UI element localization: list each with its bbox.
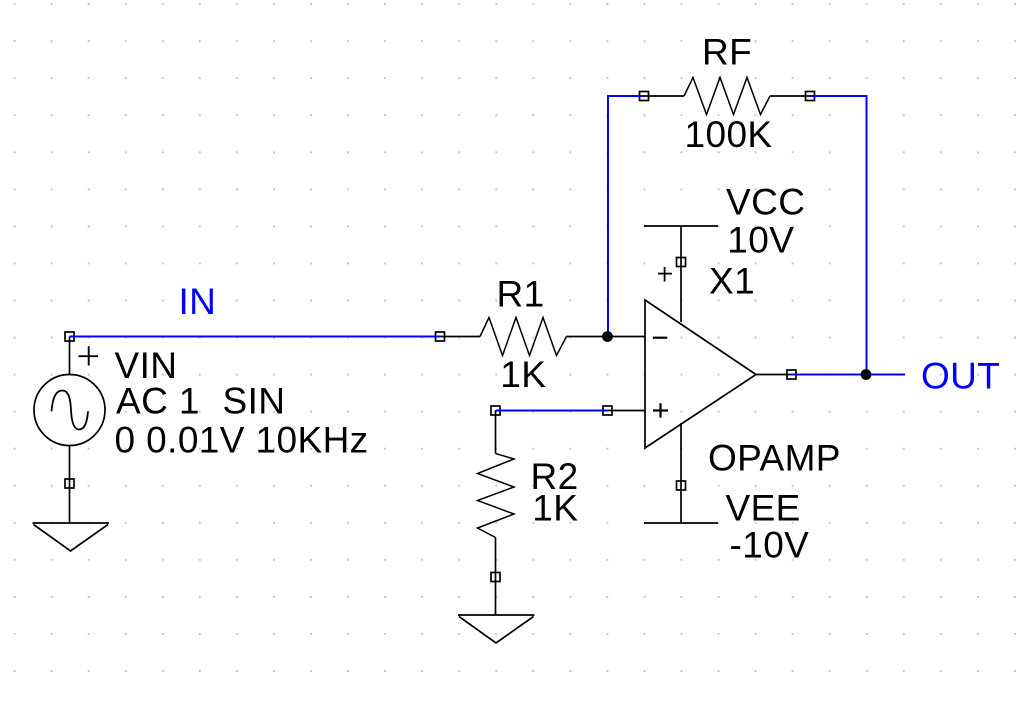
voltage source VIN body	[34, 337, 105, 524]
wire feedback left vertical: inverting node up to RF left	[608, 96, 644, 337]
pin terminal RF left	[640, 92, 649, 101]
VCC plus marker	[658, 267, 672, 282]
resistor R1	[480, 318, 567, 356]
resistor RF	[644, 78, 810, 115]
svg-text:VCC: VCC	[726, 182, 805, 223]
pin terminal RF right	[806, 92, 815, 101]
wire net N1: R2 top terminal to X1 plus input terminal	[496, 410, 608, 412]
svg-text:AC 1: AC 1	[116, 381, 200, 422]
op-amp X1 inverting input marker	[653, 337, 668, 339]
wire black: R1 left lead from IN terminal	[440, 336, 480, 338]
wire black: X1 plus input pin lead	[608, 410, 646, 412]
junction dot output node	[861, 369, 872, 380]
pin terminal X1 plus input	[603, 406, 612, 415]
svg-text:-10V: -10V	[730, 525, 810, 566]
pin terminal R1 left	[436, 332, 445, 341]
wire feedback right: RF right down to output node	[810, 96, 867, 375]
pin terminal VIN plus	[65, 332, 74, 341]
svg-text:10V: 10V	[727, 220, 794, 261]
ground symbol at R2 bottom	[458, 615, 535, 643]
svg-text:100K: 100K	[685, 114, 773, 155]
svg-text:0 0.01V 10KHz: 0 0.01V 10KHz	[115, 420, 369, 461]
svg-text:SIN: SIN	[223, 381, 286, 422]
VIN plus polarity marker	[79, 346, 99, 365]
resistor R2	[478, 411, 515, 616]
junction dot inverting node	[602, 331, 613, 342]
wire net IN: VIN plus terminal to R1 left terminal	[70, 336, 441, 338]
pin terminal X1 V-	[677, 481, 686, 490]
svg-text:X1: X1	[709, 261, 755, 302]
op-amp X1 non-inverting input marker	[653, 403, 668, 418]
pin terminal X1 output	[787, 370, 796, 379]
svg-text:1K: 1K	[532, 488, 578, 529]
svg-text:OPAMP: OPAMP	[708, 438, 841, 479]
power rail VCC bar and pin	[644, 226, 718, 322]
power rail VEE bar and pin	[644, 423, 718, 523]
pin terminal VIN minus	[65, 479, 74, 488]
ground symbol at VIN bottom	[33, 523, 110, 551]
wire black: R1 right lead to X1 inverting input	[567, 336, 646, 338]
wire net OUT: X1 output terminal to OUT label	[792, 374, 906, 376]
svg-text:OUT: OUT	[921, 356, 1000, 397]
op-amp X1 triangle	[645, 300, 756, 448]
pin terminal R2 top	[491, 406, 500, 415]
pin terminal R2 bottom	[491, 573, 500, 582]
pin terminal X1 V+	[677, 258, 686, 267]
svg-text:RF: RF	[702, 32, 752, 73]
wire black: X1 output pin lead	[756, 374, 792, 376]
svg-text:1K: 1K	[500, 354, 546, 395]
svg-text:VEE: VEE	[726, 488, 801, 529]
svg-text:IN: IN	[179, 281, 217, 322]
svg-text:R1: R1	[497, 274, 545, 315]
